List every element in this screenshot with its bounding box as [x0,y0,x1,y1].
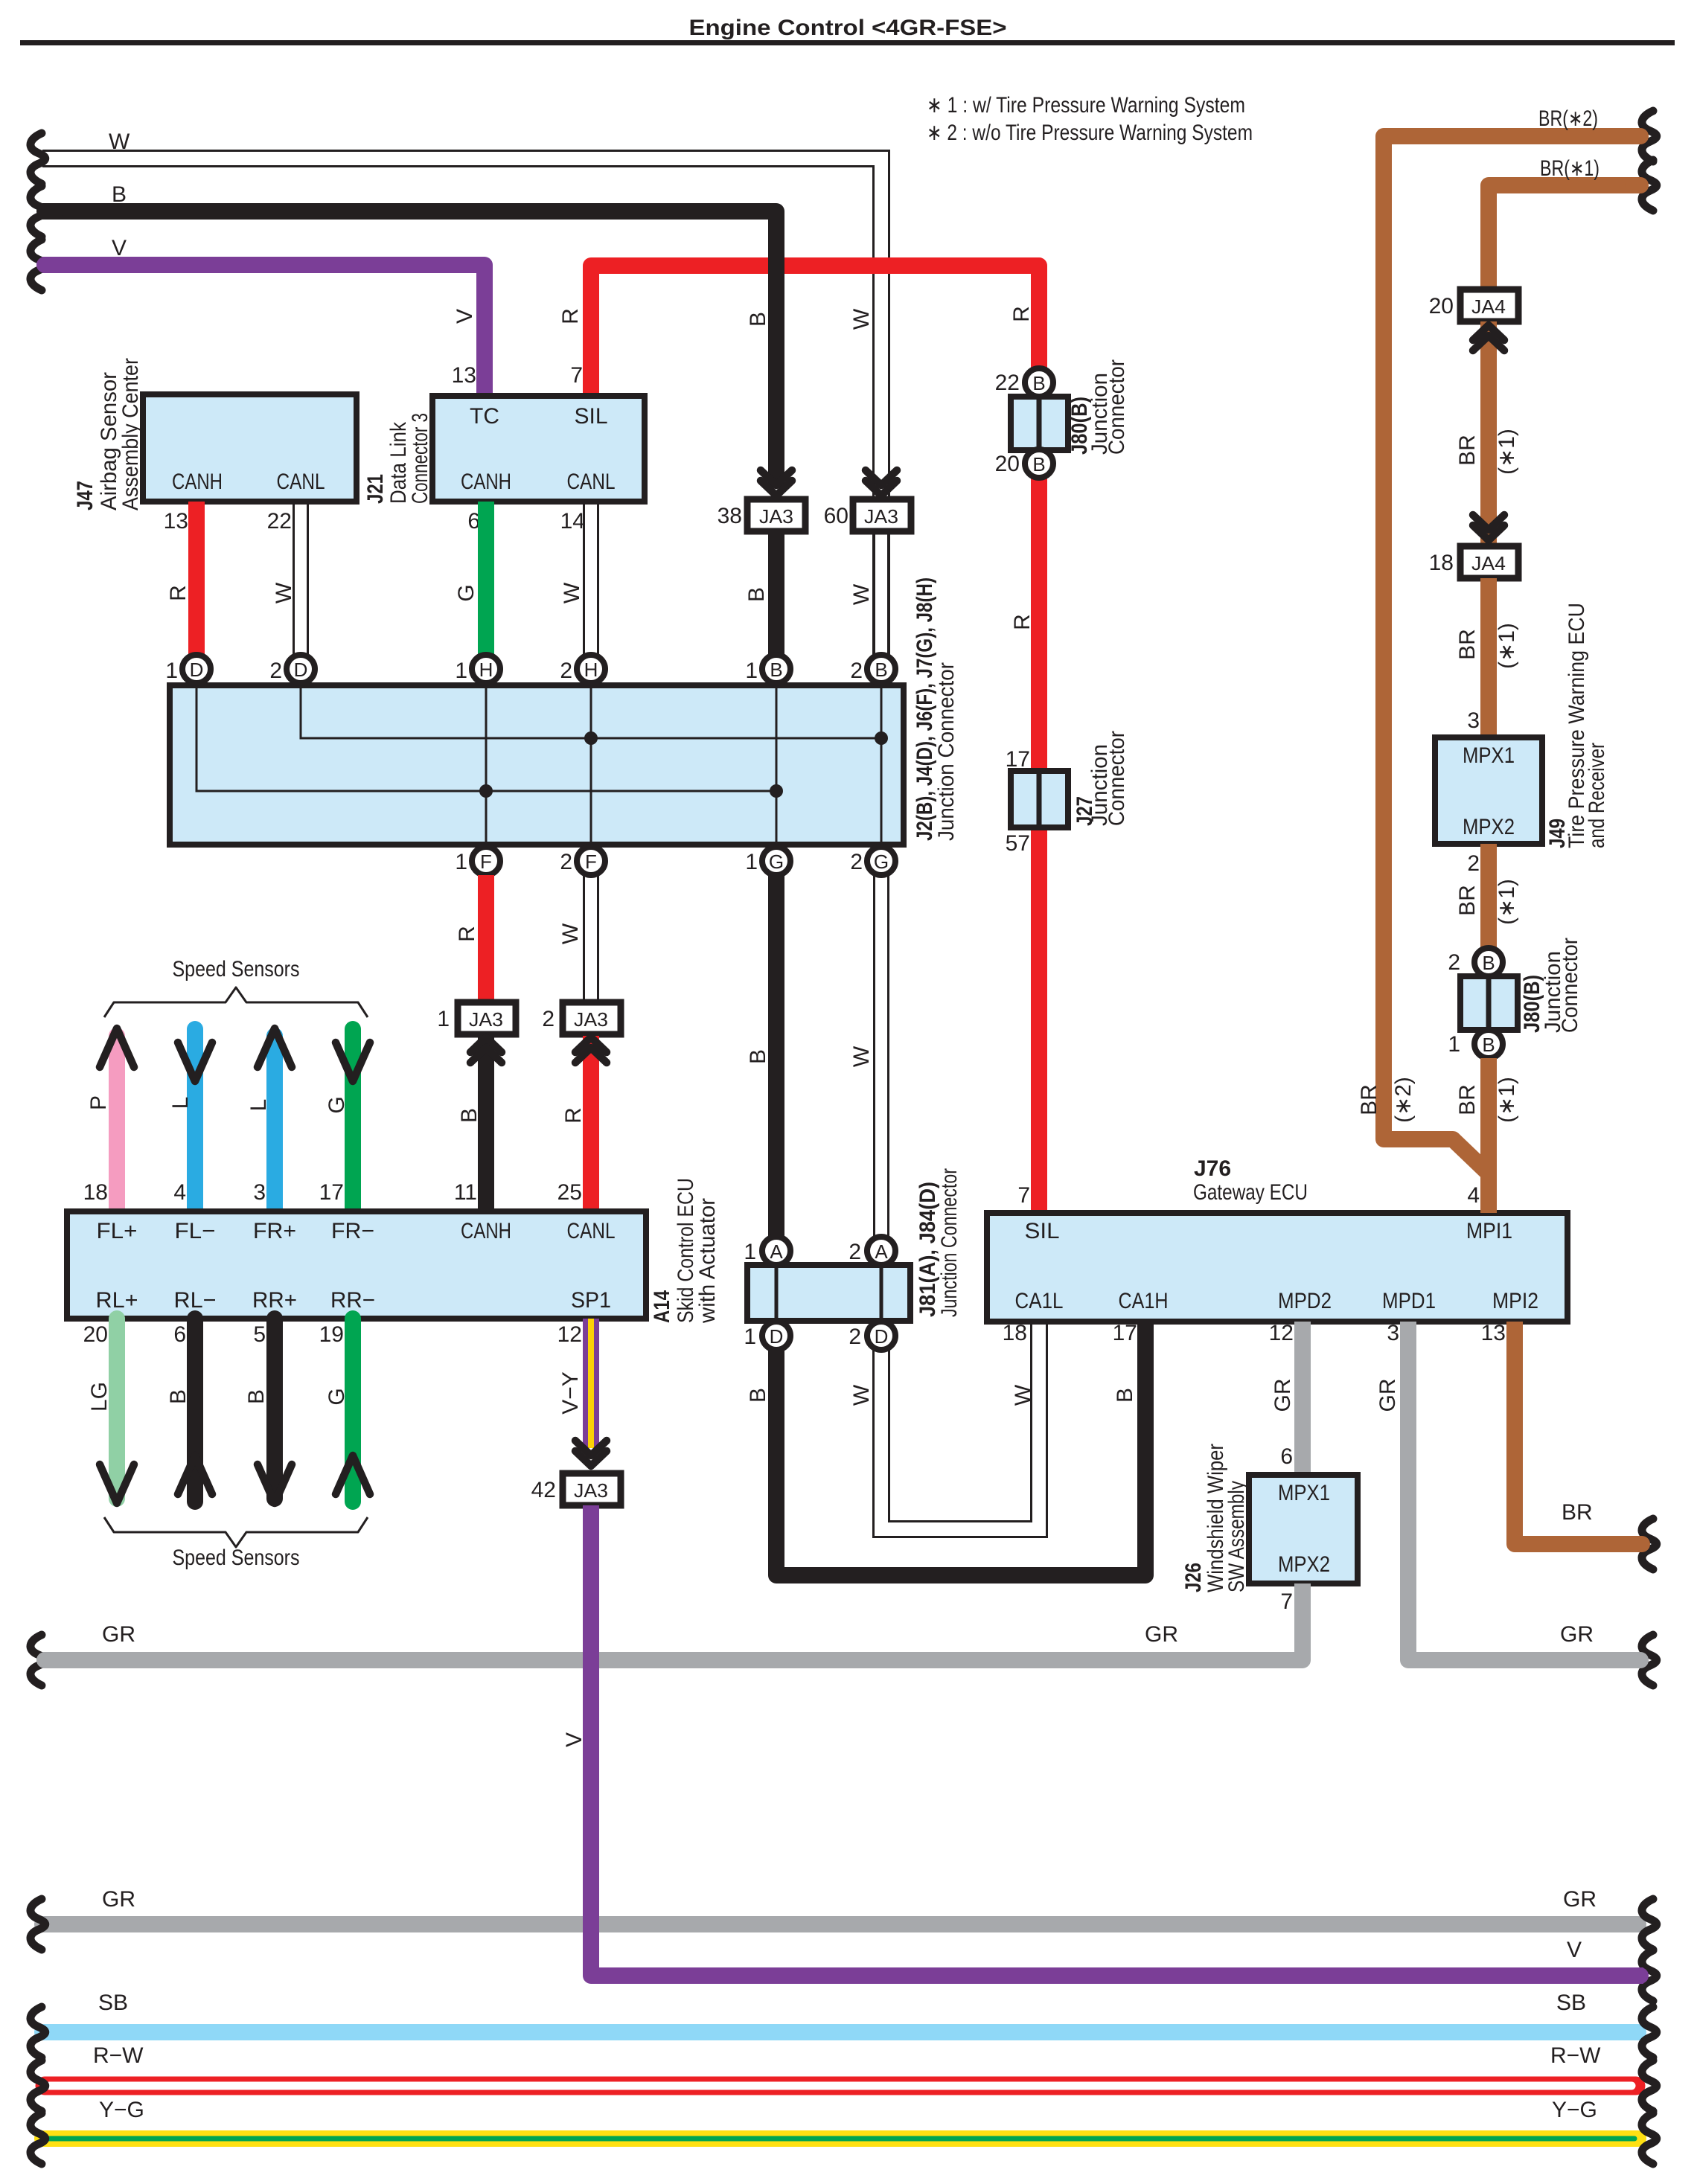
wire R-W bus full width (red-white) [45,2077,1636,2095]
svg-text:W: W [560,582,584,603]
svg-text:SB: SB [98,1991,128,2015]
svg-text:FR−: FR− [331,1219,374,1243]
pin 2 D top [269,655,315,683]
svg-text:Speed Sensors: Speed Sensors [173,1546,300,1570]
label LG [87,1382,112,1412]
svg-text:FR+: FR+ [253,1219,296,1243]
svg-text:CANL: CANL [277,470,325,494]
label SB right [1556,1991,1586,2015]
svg-text:with Actuator: with Actuator [695,1198,720,1324]
svg-text:GR: GR [102,1622,135,1647]
wire BR JA4-18 to J49 MPX1 (brown) [1480,578,1497,737]
pin 3 J49 [1467,708,1480,733]
pin 13 J47 CANH [164,509,188,534]
legend note 2 [927,121,1253,145]
wire BR J76 MPI2 down right to edge (brown) [1515,1322,1643,1544]
title rule [20,40,1675,45]
break squiggle BR right mid [1642,1519,1657,1569]
wire BR JA4-20 to JA4-18 (brown) [1480,321,1497,546]
svg-text:2: 2 [269,659,282,683]
label W [558,923,583,944]
label A14 rotated [650,1178,720,1324]
svg-text:GR: GR [102,1887,135,1912]
svg-text:CANH: CANH [172,470,223,494]
internal joint lines [196,683,881,847]
wire BR(*2) from right edge down to MPI1 merge (brown) [1384,136,1643,1173]
pin 18 A14 [83,1180,108,1205]
break squiggle W left [31,133,45,184]
label B left leg [746,1388,770,1403]
svg-text:2: 2 [1467,851,1480,876]
pin 1 B top [745,655,790,683]
wire GR bus left to J26 MPX2 (gray) [41,1583,1303,1660]
connector JA3 38 [718,499,805,531]
pin 7 J21 SIL [570,363,583,388]
junction dot 1F [479,784,493,798]
svg-text:11: 11 [454,1180,477,1205]
pin 2 D J81 [848,1322,895,1350]
svg-text:2: 2 [1448,950,1460,975]
pin 1 G bottom [745,847,790,875]
label B on black vertical upper [746,312,770,327]
svg-text:CANL: CANL [567,1219,616,1243]
arrow up into JA4 20 [1473,325,1504,350]
connector JA3 1 [437,1002,516,1034]
svg-text:SW Assembly: SW Assembly [1224,1481,1249,1592]
label J21 rotated [363,413,432,504]
svg-text:20: 20 [83,1322,108,1347]
svg-text:SP1: SP1 [571,1288,611,1313]
svg-text:W: W [849,1384,874,1406]
svg-text:Connector 3: Connector 3 [408,413,432,504]
label R [455,926,479,942]
svg-text:MPD1: MPD1 [1382,1289,1436,1313]
svg-text:4: 4 [1467,1183,1480,1208]
break squiggle BR(*2) right [1642,111,1657,161]
label Speed Sensors top [173,957,300,981]
bracket top speed sensors [104,987,368,1017]
svg-text:BR: BR [1455,629,1480,660]
svg-text:H: H [584,659,598,681]
svg-text:A14: A14 [650,1290,674,1323]
label BR [1455,1084,1480,1115]
pin 6 J21 CANH [467,509,480,534]
svg-text:GR: GR [1560,1622,1594,1647]
label W [849,1045,874,1067]
junction connector J2/J4/J6/J7/J8 box [170,685,904,845]
svg-text:D: D [190,659,204,681]
svg-text:4: 4 [173,1180,186,1205]
svg-text:RL−: RL− [174,1288,217,1313]
break squiggle SB left [31,2007,45,2057]
svg-text:17: 17 [1006,747,1030,772]
svg-text:MPX1: MPX1 [1463,743,1515,768]
pin 2 J49 [1467,851,1480,876]
svg-text:B: B [1032,453,1045,475]
junction connector J80(B) left: pin 20 circle [995,449,1053,478]
label G [454,584,479,601]
pin 12 A14 [557,1322,582,1347]
svg-text:17: 17 [319,1180,344,1205]
label L [246,1099,271,1112]
wire GR bus2 full width (gray) [42,1916,1638,1932]
svg-text:GR: GR [1375,1379,1400,1412]
J76 box Gateway ECU [987,1213,1567,1322]
pin 2 G bottom [850,847,895,875]
svg-text:13: 13 [1481,1321,1506,1345]
svg-text:D: D [770,1325,784,1348]
junction connector J80(B) right: pin 1 circle [1448,1030,1503,1058]
label B [746,1049,770,1064]
svg-text:J76: J76 [1194,1156,1231,1181]
svg-text:BR: BR [1455,435,1480,466]
svg-text:P: P [86,1095,111,1110]
svg-text:F: F [480,851,492,873]
svg-text:18: 18 [83,1180,108,1205]
svg-text:19: 19 [319,1322,344,1347]
connector JA3 2 [542,1002,621,1034]
svg-text:G: G [454,584,479,601]
junction connector J81(A)/J84(D) box [747,1265,910,1321]
label (*1) [1495,623,1519,669]
svg-text:3: 3 [1467,708,1480,733]
pin 17 J76 CA1H [1113,1321,1137,1345]
svg-text:W: W [849,583,874,605]
svg-text:2: 2 [848,1240,861,1264]
svg-text:12: 12 [557,1322,582,1347]
label R-W left [93,2043,144,2068]
svg-text:R−W: R−W [1550,2043,1601,2068]
svg-text:(∗2): (∗2) [1391,1077,1416,1123]
pin 20 A14 [83,1322,108,1347]
label V-Y [558,1371,583,1415]
svg-text:MPD2: MPD2 [1278,1289,1332,1313]
label V on wire to TC [453,309,477,324]
pin 6 A14 [173,1322,186,1347]
pin 2 F bottom [560,847,605,875]
svg-text:CA1H: CA1H [1119,1289,1169,1313]
svg-text:V: V [112,236,127,260]
wire W J21 CANL to 2H [584,502,598,655]
wire B speed sensor RL- (black, arrow up) [178,1319,212,1502]
label J47 rotated [73,358,143,510]
pin 1 A J81 [744,1237,790,1265]
pin 5 A14 [253,1322,266,1347]
junction dot 2H [584,731,598,745]
wire R J47 CANH to 1D [188,502,205,655]
svg-text:Speed Sensors: Speed Sensors [173,957,300,981]
svg-text:SB: SB [1556,1991,1586,2015]
label W right leg [1011,1384,1035,1406]
wire V JA3-42 down and right to edge (violet) [591,1505,1643,1976]
pin 14 J21 CANL [560,509,585,534]
wire G J21 CANH to 1H [478,502,494,655]
break squiggle Y-G left [31,2113,45,2164]
svg-text:18: 18 [1429,551,1454,575]
svg-text:RR−: RR− [330,1288,375,1313]
svg-text:Assembly Center: Assembly Center [118,358,143,510]
A14 box Skid Control ECU [67,1211,646,1319]
wire GR J76 MPD1 down right to edge (gray) [1408,1322,1643,1660]
label R-W right [1550,2043,1601,2068]
pin 13 J21 TC [452,363,476,388]
pin 7 J26 [1280,1589,1293,1614]
svg-text:1: 1 [165,659,178,683]
svg-text:W: W [849,1045,874,1067]
svg-text:B: B [770,659,782,681]
svg-text:W: W [558,923,583,944]
pin 11 A14 [454,1180,477,1205]
svg-text:W: W [849,308,874,330]
svg-text:1: 1 [744,1240,756,1264]
svg-text:RL+: RL+ [96,1288,138,1313]
wire BR J49 MPX2 to J80(B) 2B (brown) [1480,844,1497,948]
label W left leg [849,1384,874,1406]
svg-text:∗ 1 : w/ Tire Pressure Warning: ∗ 1 : w/ Tire Pressure Warning System [927,93,1245,118]
svg-text:2: 2 [848,1325,861,1349]
label GR [1271,1379,1295,1412]
svg-text:Junction Connector: Junction Connector [934,662,959,841]
svg-text:1: 1 [1448,1032,1460,1057]
svg-text:SIL: SIL [1025,1219,1060,1243]
label BR [1455,885,1480,916]
pin 3 J76 MPD1 [1387,1321,1399,1345]
break squiggle Y-G right [1642,2113,1657,2164]
svg-text:G: G [325,1096,349,1113]
svg-text:B: B [746,312,770,327]
label B [457,1108,482,1123]
wire R from J21 SIL up right and down to J76 SIL (red) [591,266,1039,1213]
wire B speed sensor RR+ (black, arrow down) [258,1319,292,1503]
svg-text:RR+: RR+ [252,1288,297,1313]
label R on red vertical top [1009,306,1034,322]
wire L speed sensor FR+ (blue, arrow up) [258,1028,292,1211]
svg-text:(∗1): (∗1) [1495,429,1519,475]
svg-text:TC: TC [470,404,499,429]
svg-text:25: 25 [557,1180,582,1205]
label W [849,583,874,605]
svg-text:R: R [1010,614,1035,630]
svg-text:Connector: Connector [1105,731,1129,826]
label J76 [1194,1156,1231,1181]
label BR(*1) top [1540,156,1599,181]
pin 17 A14 [319,1180,344,1205]
connector JA4 18 [1429,546,1518,578]
wire B JA3-1 to A14 CANH [478,1036,494,1211]
J80(B) left box [1011,397,1068,450]
break squiggle B left [31,186,45,237]
pin 2 B top [850,655,895,683]
connector JA4 20 [1429,289,1518,321]
svg-text:13: 13 [164,509,188,534]
wire G speed sensor RR- (green, arrow up) [336,1319,370,1502]
svg-text:J21: J21 [363,474,388,504]
break squiggle GR right bus1 [1642,1635,1657,1685]
pin 18 J76 CA1L [1003,1321,1027,1345]
pin 2 A J81 [848,1237,895,1265]
label GR right [1560,1622,1594,1647]
svg-text:1: 1 [437,1007,450,1031]
svg-text:Connector: Connector [1558,938,1582,1033]
svg-text:14: 14 [560,509,585,534]
svg-text:L: L [168,1097,193,1109]
svg-text:F: F [585,851,597,873]
svg-text:V−Y: V−Y [558,1371,583,1415]
svg-text:Y−G: Y−G [1552,2098,1597,2122]
svg-text:B: B [1113,1388,1137,1403]
svg-text:G: G [325,1388,349,1405]
svg-text:B: B [457,1108,482,1123]
svg-text:20: 20 [995,452,1020,476]
svg-text:5: 5 [253,1322,266,1347]
label J27 rotated [1073,731,1129,826]
label Gateway ECU [1193,1180,1308,1205]
svg-text:17: 17 [1113,1321,1137,1345]
svg-text:D: D [875,1325,889,1348]
bracket bottom speed sensors [104,1517,368,1547]
wire W J81 2D to J76 CA1L (white) [874,1322,1047,1537]
svg-text:B: B [1032,372,1045,394]
wire V harness-in top (violet) [42,265,485,396]
svg-text:JA4: JA4 [1471,552,1506,574]
J80(B) right box [1460,976,1518,1030]
label W top-left [109,129,130,154]
svg-text:D: D [294,659,308,681]
label V rotated [562,1732,587,1747]
break squiggle GR left bus1 [31,1635,45,1685]
svg-text:1: 1 [745,850,758,874]
label P [86,1095,111,1110]
arrow down into JA3 42 [575,1441,607,1466]
svg-text:and Receiver: and Receiver [1585,743,1609,848]
svg-text:7: 7 [1017,1183,1030,1208]
svg-text:B: B [744,587,769,602]
label GR left [102,1622,135,1647]
svg-text:H: H [479,659,493,681]
arrow down into JA3 60 [866,470,897,496]
label GR bus2 right [1563,1887,1597,1912]
legend note 1 [927,93,1245,118]
svg-text:B: B [166,1389,191,1404]
svg-text:2: 2 [560,659,572,683]
wire G speed sensor FR- (green, arrow down) [336,1029,370,1211]
junction connector J80(B) right: pin 2 circle [1448,948,1503,976]
label BR right mid [1562,1500,1593,1525]
svg-text:22: 22 [267,509,292,534]
connector JA3 42 [531,1473,621,1505]
svg-text:G: G [874,851,889,873]
svg-text:R−W: R−W [93,2043,144,2068]
pin 12 J76 MPD2 [1269,1321,1294,1345]
svg-text:B: B [1482,952,1495,974]
pin 6 J26 [1280,1444,1293,1469]
wire R 1F to JA3-1 [478,875,494,1002]
label G [325,1388,349,1405]
svg-text:Y−G: Y−G [99,2098,144,2122]
svg-text:JA3: JA3 [864,505,898,528]
J26 box Windshield Wiper SW Assembly [1249,1475,1358,1583]
wire V-Y A14 SP1 to JA3-42 (violet-yellow) [583,1319,599,1448]
break squiggle V left [31,240,45,290]
label Speed Sensors bottom [173,1546,300,1570]
J47 box Airbag Sensor Assembly Center [143,394,357,502]
label R [166,585,191,601]
svg-text:R: R [455,926,479,942]
label (*1) [1495,1077,1519,1123]
svg-text:MPX2: MPX2 [1278,1552,1330,1577]
pin 25 A14 [557,1180,582,1205]
svg-text:MPX2: MPX2 [1463,815,1515,839]
break squiggle R-W left [31,2060,45,2111]
pin 1 H top [455,655,500,683]
J21 box Data Link Connector 3 [432,396,645,502]
label L [168,1097,193,1109]
svg-text:2: 2 [850,850,863,874]
svg-text:Gateway ECU: Gateway ECU [1193,1180,1308,1205]
pin 4 J76 MPI1 [1467,1183,1480,1208]
label J49 rotated [1545,603,1609,848]
label V right end [1567,1938,1582,1962]
label J81(A) J84(D) rotated [915,1168,962,1317]
label J80(B) left rotated [1067,359,1129,455]
svg-text:Connector: Connector [1105,359,1129,455]
svg-text:BR(∗2): BR(∗2) [1538,106,1598,131]
wire W harness-in top (white) [42,151,889,656]
title Engine Control [689,16,1007,40]
label B [166,1389,191,1404]
pin 1 F bottom [455,847,500,875]
svg-text:B: B [875,659,887,681]
svg-text:JA4: JA4 [1471,295,1506,318]
wire BR J80(B) 1B to J76 MPI1 (brown) [1480,1058,1497,1213]
svg-text:B: B [244,1389,269,1404]
wire B JA3-38 to 1B [768,531,784,655]
svg-text:13: 13 [452,363,476,388]
svg-text:GR: GR [1563,1887,1597,1912]
svg-text:1: 1 [744,1325,756,1349]
svg-text:2: 2 [560,850,572,874]
svg-text:B: B [1482,1034,1495,1056]
svg-text:W: W [1011,1384,1035,1406]
pin 2 H top [560,655,605,683]
svg-text:R: R [166,585,191,601]
svg-text:7: 7 [570,363,583,388]
label (*1) [1495,879,1519,925]
wire W J47 CANL to 2D [294,502,308,655]
wire B 1G to J81 1A [768,875,784,1237]
label (*2) on *2 vertical [1391,1077,1416,1123]
label GR [1375,1379,1400,1412]
svg-text:Engine Control <4GR-FSE>: Engine Control <4GR-FSE> [689,16,1007,40]
pin 7 J76 SIL [1017,1183,1030,1208]
svg-text:CANH: CANH [461,470,511,494]
svg-text:2: 2 [850,659,863,683]
pin 19 A14 [319,1322,344,1347]
svg-text:42: 42 [531,1478,556,1502]
label B [744,587,769,602]
wire Y-G bus full width (yellow-green) [42,2130,1638,2147]
svg-text:JA3: JA3 [574,1008,608,1031]
svg-text:6: 6 [173,1322,186,1347]
svg-text:CANL: CANL [567,470,616,494]
svg-text:60: 60 [824,504,848,528]
wire LG speed sensor RL+ (light green, arrow down) [100,1319,134,1503]
pin 1 D top [165,655,211,683]
svg-text:BR(∗1): BR(∗1) [1540,156,1599,181]
svg-text:CANH: CANH [461,1219,511,1243]
svg-text:V: V [453,309,477,324]
label V top-left [112,236,127,260]
